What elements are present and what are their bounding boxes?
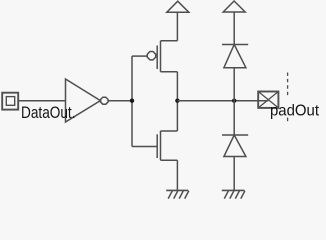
- node gate junction: [130, 99, 134, 103]
- wire output node to pad: [177, 100, 268, 102]
- node output junction: [175, 99, 179, 103]
- wire port to inverter input: [19, 100, 66, 102]
- wire VDD2 to diode D1 cathode: [233, 12, 235, 45]
- ground 1: [166, 190, 189, 198]
- wire inverter output to gate node: [108, 100, 132, 102]
- transistor Q1 PMOS: [132, 41, 177, 72]
- port padOut (square with X): [258, 92, 278, 108]
- label leader line (dash below text): [287, 118, 289, 122]
- wire gate net vertical: [131, 56, 133, 146]
- ground 2: [222, 190, 245, 198]
- power VDD 2: [223, 1, 245, 12]
- wire diode D1 anode to output node: [233, 68, 235, 101]
- diode D1 (pad to VDD): [222, 45, 248, 68]
- wire output node to diode D2 cathode: [233, 101, 235, 135]
- inverter U1: [66, 79, 109, 122]
- svg-text:padOut: padOut: [270, 103, 320, 120]
- node diode column junction: [232, 99, 236, 103]
- wire PMOS source to VDD: [176, 12, 178, 41]
- port DataOut (square-in-square connector): [2, 93, 18, 110]
- wire diode D2 anode to ground: [233, 157, 235, 191]
- svg-text:DataOut.: DataOut.: [21, 104, 76, 122]
- transistor Q2 NMOS: [132, 131, 177, 160]
- wire PMOS drain to NMOS drain (output node vertical): [176, 72, 178, 131]
- wire NMOS source to ground: [176, 160, 178, 190]
- diode D2 (ground to pad): [222, 135, 248, 157]
- label leader line (dashed): [287, 73, 289, 97]
- power VDD 1: [167, 1, 189, 12]
